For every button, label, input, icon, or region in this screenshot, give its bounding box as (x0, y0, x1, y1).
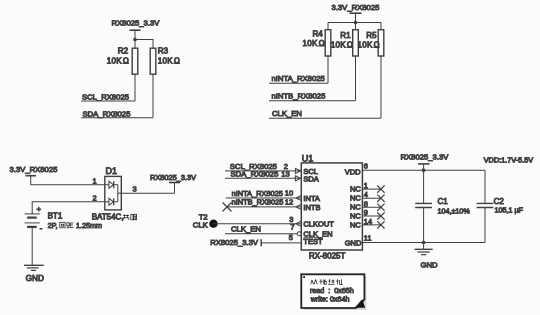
svg-text:nINTA_RX8025: nINTA_RX8025 (232, 189, 283, 198)
label 距 (of 2P,间距1.25mm) (67, 223, 74, 228)
CJK glyphs drawn as strokes (60, 214, 343, 284)
svg-text:3.3V_RX8025: 3.3V_RX8025 (10, 165, 58, 174)
pin arrow INTA (296, 196, 301, 201)
test point T2 CLK (193, 213, 218, 230)
svg-text:R4: R4 (313, 29, 324, 38)
net label SCL_RX8025 (chip side) (225, 162, 301, 171)
svg-text:NC: NC (350, 220, 361, 229)
NC pin 1 (350, 181, 385, 194)
svg-text:10K Ω: 10K Ω (358, 41, 380, 50)
net label CLK_EN (chip side) (225, 225, 297, 234)
wire R4 down (327, 56, 329, 83)
svg-text:INTB: INTB (303, 203, 320, 212)
wire pin1 (31, 184, 105, 186)
svg-text:nINTA_RX8025: nINTA_RX8025 (272, 74, 325, 83)
wire VDD (362, 169, 485, 171)
svg-text:R2: R2 (118, 47, 129, 56)
wire R5 down (380, 56, 382, 118)
wire (327, 23, 329, 30)
power port RX8025_3.3V (decoupling) (401, 153, 450, 171)
no-ERC cross (223, 202, 232, 211)
power port RX8025_3.3V (diode output) (150, 173, 196, 193)
label 共 (of BAT54C,共阴) (123, 215, 130, 220)
svg-text:10K Ω: 10K Ω (331, 41, 353, 50)
svg-text:R3: R3 (158, 47, 169, 56)
net label SDA_RX8025 (chip side) (225, 170, 301, 179)
svg-text:NC: NC (350, 203, 361, 212)
wire battery to gnd (31, 227, 33, 265)
power port 3.3V_RX8025 (battery section) (10, 165, 58, 185)
label 间 (of 2P,间距1.25mm) (60, 222, 65, 228)
junction dot (354, 21, 358, 25)
resistor R3 (150, 47, 180, 74)
power port RX8025_3.3V (TEST pin) (210, 238, 261, 247)
svg-text:6: 6 (364, 162, 368, 171)
svg-text:CLKOUT: CLKOUT (303, 220, 334, 229)
svg-text:10K Ω: 10K Ω (107, 57, 129, 66)
net label SCL_RX8025 (81, 93, 135, 102)
svg-text:write: 0x64h: write: 0x64h (310, 295, 350, 304)
NC pin 9 (350, 208, 385, 220)
svg-text:CLK_EN: CLK_EN (231, 225, 261, 234)
svg-text:12: 12 (285, 197, 293, 206)
junction dot (422, 241, 426, 245)
pin arrow SDA (295, 176, 300, 181)
wire (355, 23, 357, 30)
svg-text:3.3V_RX8025: 3.3V_RX8025 (332, 3, 380, 12)
net label nINTA_RX8025 (269, 74, 328, 83)
resistor R4 (303, 29, 331, 56)
overline TEST (303, 237, 320, 239)
svg-text:13: 13 (281, 170, 289, 179)
svg-text:NC: NC (350, 212, 361, 221)
wire TEST (261, 242, 301, 244)
svg-text:TEST: TEST (303, 237, 323, 246)
IC body (301, 163, 362, 250)
svg-text:nINTB_RX8025: nINTB_RX8025 (272, 92, 326, 101)
svg-text:+: + (37, 204, 42, 213)
svg-text:NC: NC (350, 194, 361, 203)
wire R3 to SDA (152, 74, 154, 118)
svg-text:1: 1 (93, 176, 97, 185)
svg-text:2: 2 (93, 193, 97, 202)
svg-text:1.25mm: 1.25mm (76, 221, 102, 230)
svg-text:VDD: VDD (345, 167, 361, 176)
capacitor C2 (477, 170, 524, 242)
power port RX8025_3.3V (top-left) (112, 19, 161, 40)
resistor R2 (107, 47, 138, 74)
capacitor C1 (415, 170, 470, 242)
note text 从机地址 (311, 279, 343, 284)
pin bubble CLK_EN (297, 232, 301, 236)
wire R2 to SCL (134, 74, 136, 101)
svg-text:VDD:1.7V-5.5V: VDD:1.7V-5.5V (484, 156, 534, 165)
svg-text:R5: R5 (366, 31, 377, 40)
svg-text:-: - (40, 224, 43, 233)
svg-text:GND: GND (421, 260, 439, 269)
power port 3.3V_RX8025 (top-right) (332, 3, 380, 23)
svg-text:INTA: INTA (303, 194, 320, 203)
wire CLKOUT (214, 223, 302, 225)
svg-text:R1: R1 (340, 31, 351, 40)
svg-text:CLK_EN: CLK_EN (272, 109, 302, 118)
diode D1 (BAT54C dual, common cathode) (105, 166, 122, 210)
svg-text:SDA: SDA (303, 175, 318, 184)
wire R1 down (355, 56, 357, 101)
wire rail (328, 22, 381, 24)
svg-text:SDA_RX8025: SDA_RX8025 (231, 170, 279, 179)
svg-text:GND: GND (345, 238, 362, 247)
svg-text:10K Ω: 10K Ω (158, 57, 180, 66)
net label nINTA_RX8025 (chip side) (226, 189, 302, 198)
svg-text:D1: D1 (106, 166, 118, 176)
svg-text:C1: C1 (438, 197, 449, 206)
net label nINTB_RX8025 (269, 92, 356, 101)
resistor R1 (331, 30, 359, 56)
svg-text:SCL_RX8025: SCL_RX8025 (82, 93, 129, 102)
wire pin2 (32, 202, 105, 214)
svg-text:GND: GND (26, 273, 44, 283)
svg-text:10K Ω: 10K Ω (303, 39, 325, 48)
wire (135, 40, 153, 49)
svg-text:RX8025_3.3V: RX8025_3.3V (112, 19, 161, 28)
ground (decoupling) (415, 243, 439, 270)
pin arrow CLKOUT (296, 221, 301, 226)
NC pin 8 (350, 199, 385, 211)
junction dot (133, 38, 137, 42)
svg-text:SDA_RX8025: SDA_RX8025 (83, 109, 131, 118)
battery BT1 (25, 204, 63, 233)
NC pin 14 (350, 217, 385, 230)
svg-text:RX8025_3.3V: RX8025_3.3V (401, 153, 450, 162)
pin arrow INTB (296, 204, 301, 209)
svg-text:nINTB_RX8025: nINTB_RX8025 (232, 198, 284, 207)
NC pin 4 (350, 190, 385, 202)
svg-text:RX8025_3.3V: RX8025_3.3V (150, 173, 196, 182)
svg-text:7: 7 (290, 223, 294, 232)
svg-text:11: 11 (364, 234, 372, 243)
resistor R5 (358, 30, 384, 56)
svg-text:U1: U1 (302, 153, 314, 163)
net label CLK_EN (269, 109, 381, 118)
net label SDA_RX8025 (81, 109, 153, 118)
junction dot (422, 168, 426, 172)
net label nINTB_RX8025 (chip side) (227, 198, 301, 207)
pin arrow SCL (295, 168, 300, 173)
svg-text:BT1: BT1 (48, 212, 63, 221)
svg-text:NC: NC (350, 185, 361, 194)
wire GND (362, 242, 485, 244)
svg-text:5: 5 (289, 233, 293, 242)
wire (380, 23, 382, 30)
label 阴 (of BAT54C,共阴) (131, 214, 137, 220)
svg-text:CLK: CLK (193, 220, 209, 229)
svg-text:3: 3 (133, 185, 137, 194)
ground (battery) (24, 265, 44, 283)
svg-text:10: 10 (285, 189, 293, 198)
svg-text:read : 0x65h: read : 0x65h (310, 286, 354, 295)
svg-text:104,±10%: 104,±10% (438, 207, 471, 216)
wire pin3 (121, 192, 174, 194)
svg-text:RX8025_3.3V: RX8025_3.3V (210, 238, 259, 247)
wire (134, 40, 136, 49)
svg-text:2P,: 2P, (48, 221, 58, 230)
svg-text:RX-8025T: RX-8025T (309, 251, 346, 260)
svg-text:105,1 µF: 105,1 µF (495, 206, 524, 215)
note box (slave address) (301, 274, 366, 310)
